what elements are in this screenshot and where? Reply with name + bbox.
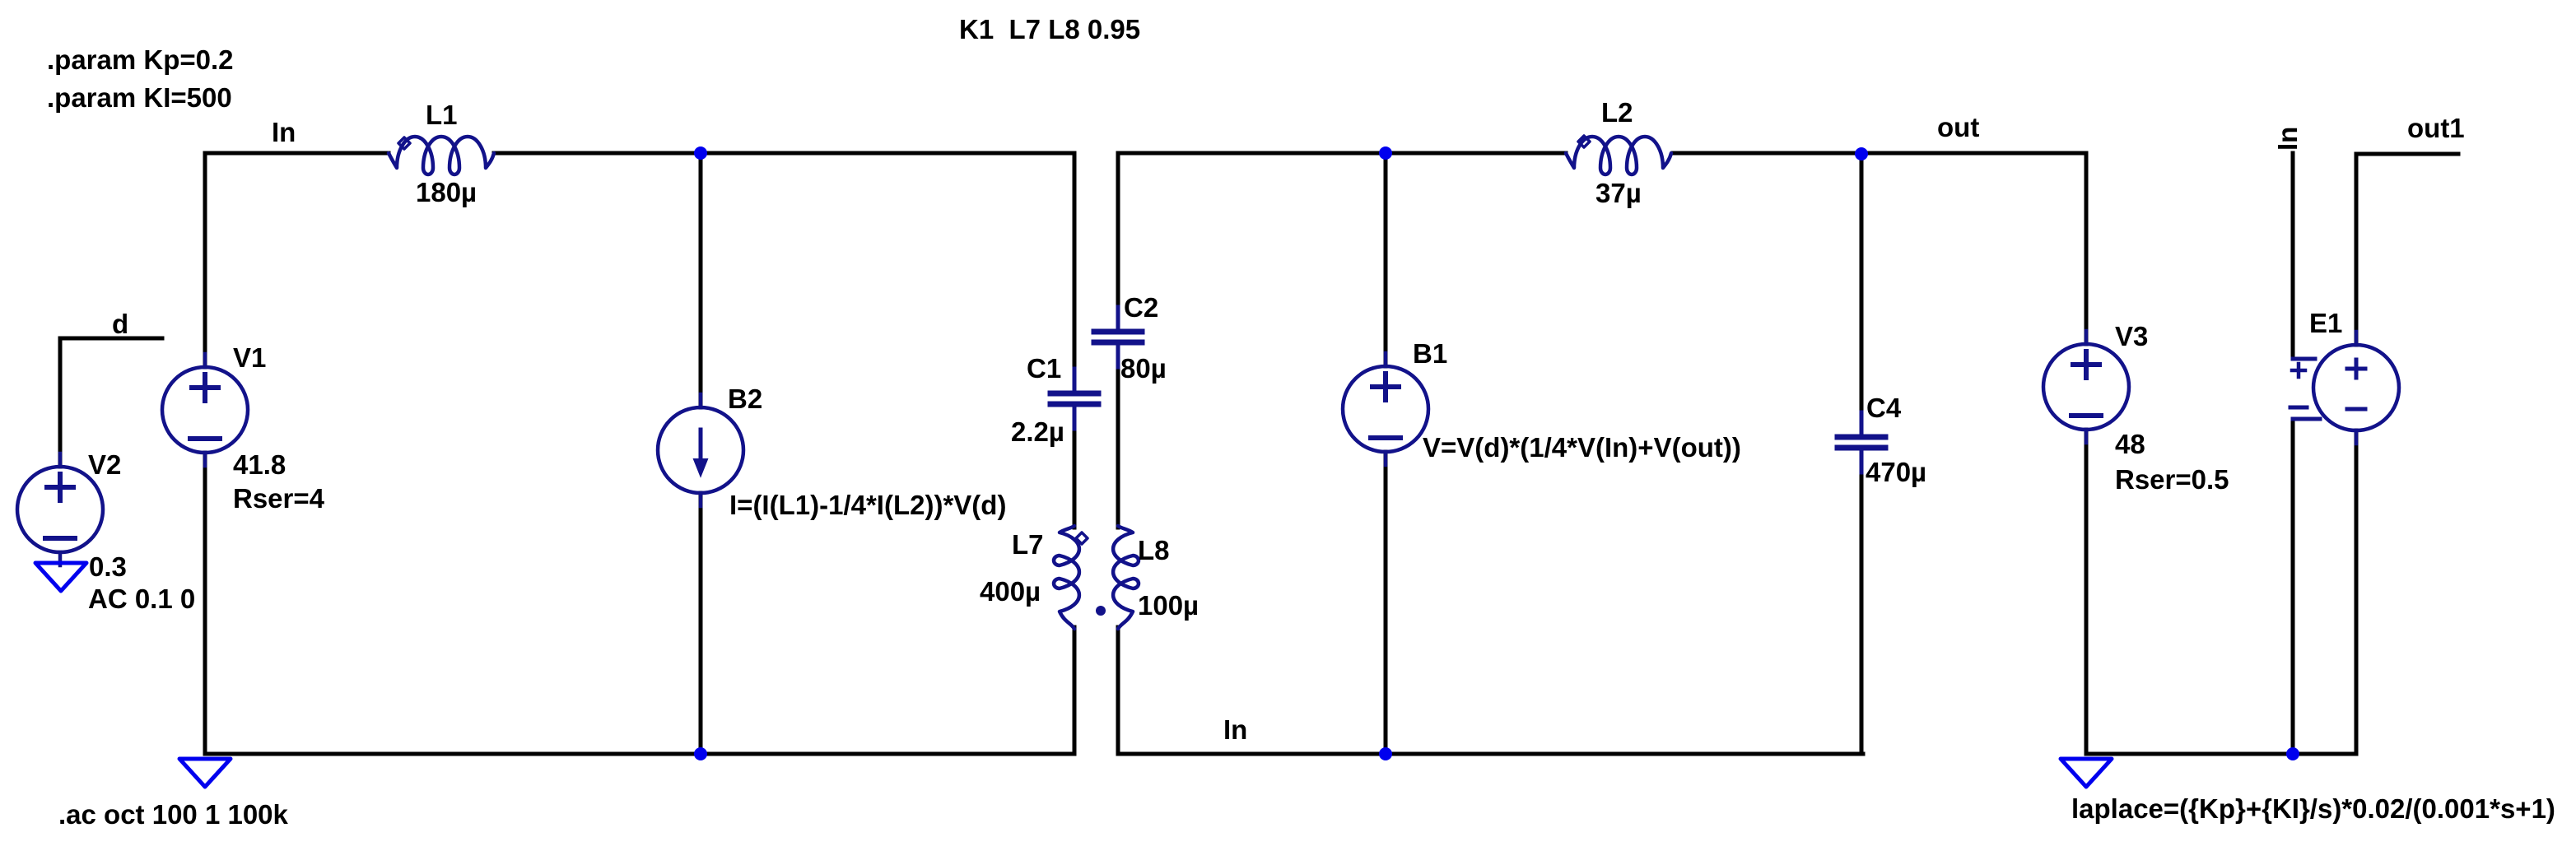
label V1 bbox=[233, 342, 266, 373]
label B1 bbox=[1413, 338, 1447, 369]
node label d bbox=[112, 309, 128, 339]
svg-text:.param KI=500: .param KI=500 bbox=[47, 82, 232, 113]
value AC 0.1 0 bbox=[88, 584, 195, 614]
svg-text:V=V(d)*(1/4*V(In)+V(out)): V=V(d)*(1/4*V(In)+V(out)) bbox=[1423, 432, 1741, 463]
coupled inductor L7 bbox=[1054, 526, 1079, 629]
svg-text:100µ: 100µ bbox=[1138, 590, 1199, 621]
svg-text:V2: V2 bbox=[88, 449, 121, 480]
svg-text:.param Kp=0.2: .param Kp=0.2 bbox=[47, 44, 234, 75]
svg-text:AC 0.1 0: AC 0.1 0 bbox=[88, 584, 195, 614]
wire V1 bottom vertical to ground bbox=[203, 453, 207, 754]
value 100µ bbox=[1138, 590, 1199, 621]
node label In rotated at E1 control bbox=[2272, 127, 2303, 151]
svg-text:C2: C2 bbox=[1124, 292, 1158, 323]
L8 phase dot bbox=[1096, 606, 1106, 616]
svg-text:L2: L2 bbox=[1601, 97, 1633, 128]
svg-text:d: d bbox=[112, 309, 128, 339]
svg-text:37µ: 37µ bbox=[1595, 178, 1642, 208]
directive K1 coupling bbox=[959, 14, 1140, 44]
label E1 bbox=[2309, 308, 2342, 338]
value 41.8 bbox=[233, 449, 286, 480]
svg-text:2.2µ: 2.2µ bbox=[1011, 416, 1064, 447]
svg-text:E1: E1 bbox=[2309, 308, 2342, 338]
behavioral voltage source B1 bbox=[1343, 353, 1428, 465]
svg-text:In: In bbox=[272, 117, 296, 147]
value 400µ bbox=[980, 576, 1041, 607]
ground at V2 bbox=[35, 563, 86, 591]
label C4 bbox=[1866, 393, 1902, 423]
label L1 bbox=[426, 100, 458, 130]
value Rser=4 bbox=[233, 483, 325, 514]
svg-text:Rser=0.5: Rser=0.5 bbox=[2115, 464, 2229, 495]
svg-text:180µ: 180µ bbox=[416, 177, 477, 207]
directive .param KI bbox=[47, 82, 232, 113]
directive .ac bbox=[58, 799, 289, 830]
wire bottom net In middle segment bbox=[1118, 752, 1863, 756]
wire E1 - control pin down to ground net bbox=[2291, 419, 2295, 754]
wire C2 to L8 vertical bbox=[1116, 365, 1120, 528]
svg-text:400µ: 400µ bbox=[980, 576, 1041, 607]
value 80µ bbox=[1120, 353, 1167, 384]
svg-text:out: out bbox=[1937, 112, 1979, 142]
wire C1 branch top vertical bbox=[1073, 153, 1077, 370]
node label out1 bbox=[2407, 113, 2465, 143]
wire B1 bottom vertical bbox=[1384, 452, 1388, 754]
junction B1 bottom bbox=[1379, 747, 1392, 760]
L2 phase dot diamond bbox=[1578, 136, 1590, 147]
node label out bbox=[1937, 112, 1979, 142]
value 180µ bbox=[416, 177, 477, 207]
directive .param Kp bbox=[47, 44, 234, 75]
svg-text:.ac oct 100 1 100k: .ac oct 100 1 100k bbox=[58, 799, 289, 830]
label L7 bbox=[1012, 529, 1044, 560]
svg-text:41.8: 41.8 bbox=[233, 449, 286, 480]
label B2 bbox=[728, 384, 762, 414]
junction B2 bottom bbox=[694, 747, 707, 760]
wire E1 output top vertical bbox=[2355, 154, 2359, 345]
voltage source V2 bbox=[17, 453, 103, 565]
svg-text:0.3: 0.3 bbox=[89, 551, 127, 582]
label L8 bbox=[1138, 535, 1170, 565]
wire node d vertical to V2 bbox=[58, 338, 63, 467]
wire C2 branch top vertical bbox=[1116, 153, 1120, 309]
value laplace of E1 bbox=[2071, 793, 2555, 824]
wire out1 from E1 top corner bbox=[2356, 152, 2458, 156]
wire bottom right segment V3 to E1 bbox=[2086, 752, 2356, 756]
svg-text:C4: C4 bbox=[1866, 393, 1902, 423]
inductor L1 bbox=[389, 137, 494, 174]
wire net In top-left from V1 to L1 bbox=[205, 151, 389, 156]
svg-text:48: 48 bbox=[2115, 429, 2145, 459]
svg-text:L8: L8 bbox=[1138, 535, 1170, 565]
wire bottom ground net left segment bbox=[205, 752, 1074, 756]
wire C1 to L7 vertical bbox=[1073, 427, 1077, 528]
wire B2 top vertical bbox=[699, 153, 703, 407]
label L2 bbox=[1601, 97, 1633, 128]
label C1 bbox=[1027, 353, 1061, 384]
svg-text:C1: C1 bbox=[1027, 353, 1061, 384]
wire L7 bottom vertical bbox=[1073, 627, 1077, 754]
wire top net segment from C2 branch to L2 bbox=[1118, 151, 1566, 156]
wire V3 top vertical bbox=[2085, 153, 2089, 344]
ground at V1 bbox=[179, 759, 231, 787]
wire In label to E1 + control pin bbox=[2291, 153, 2295, 359]
svg-text:In: In bbox=[2272, 127, 2303, 151]
svg-text:In: In bbox=[1223, 714, 1247, 745]
junction B2 top bbox=[694, 146, 707, 160]
wire V1 top vertical bbox=[203, 153, 207, 367]
svg-text:B1: B1 bbox=[1413, 338, 1447, 369]
capacitor C2 bbox=[1094, 307, 1142, 367]
wire C4 bottom vertical bbox=[1860, 471, 1864, 754]
VCVS E1 bbox=[2290, 332, 2399, 444]
capacitor C4 bbox=[1838, 412, 1885, 472]
value 2.2µ bbox=[1011, 416, 1064, 447]
svg-text:L7: L7 bbox=[1012, 529, 1044, 560]
value I=(I(L1)-1/4*I(L2))*V(d) bbox=[729, 490, 1006, 520]
svg-text:V3: V3 bbox=[2115, 321, 2148, 351]
label C2 bbox=[1124, 292, 1158, 323]
svg-text:Rser=4: Rser=4 bbox=[233, 483, 325, 514]
svg-text:V1: V1 bbox=[233, 342, 266, 373]
ground at V3 bbox=[2061, 759, 2112, 787]
value 0.3 bbox=[89, 551, 127, 582]
wire top net segment from L2 to V3 corner bbox=[1673, 151, 2086, 156]
svg-text:K1 L7 L8 0.95: K1 L7 L8 0.95 bbox=[959, 14, 1140, 44]
node label In bbox=[272, 117, 296, 147]
wire L8 bottom vertical bbox=[1116, 627, 1120, 754]
wire E1 output bottom vertical bbox=[2355, 430, 2359, 754]
value 48 bbox=[2115, 429, 2145, 459]
voltage source V3 bbox=[2043, 331, 2129, 443]
svg-text:I=(I(L1)-1/4*I(L2))*V(d): I=(I(L1)-1/4*I(L2))*V(d) bbox=[729, 490, 1006, 520]
svg-text:B2: B2 bbox=[728, 384, 762, 414]
label V2 bbox=[88, 449, 121, 480]
svg-text:out1: out1 bbox=[2407, 113, 2465, 143]
junction out node at C4 bbox=[1855, 147, 1868, 160]
svg-text:laplace=({Kp}+{KI}/s)*0.02/(0.: laplace=({Kp}+{KI}/s)*0.02/(0.001*s+1) bbox=[2071, 793, 2555, 824]
value 470µ bbox=[1866, 457, 1926, 487]
value V=V(d)*(1/4*V(In)+V(out)) bbox=[1423, 432, 1741, 463]
wire B2 bottom vertical bbox=[699, 493, 703, 754]
node label In bottom bbox=[1223, 714, 1247, 745]
svg-text:470µ: 470µ bbox=[1866, 457, 1926, 487]
value Rser=0.5 bbox=[2115, 464, 2229, 495]
capacitor C1 bbox=[1050, 369, 1098, 429]
wire V3 bottom vertical to ground bbox=[2085, 430, 2089, 754]
wire from L1 to C1 branch corner bbox=[494, 151, 1074, 156]
voltage source V1 bbox=[162, 354, 248, 466]
inductor L2 bbox=[1566, 137, 1671, 174]
svg-text:80µ: 80µ bbox=[1120, 353, 1167, 384]
coupled inductor L8 bbox=[1113, 526, 1139, 629]
wire node d horizontal bbox=[60, 337, 162, 341]
value 37µ bbox=[1595, 178, 1642, 208]
label V3 bbox=[2115, 321, 2148, 351]
wire C4 top vertical bbox=[1860, 153, 1864, 414]
L1 phase dot diamond bbox=[398, 137, 410, 149]
junction B1 top bbox=[1379, 146, 1392, 160]
wire B1 top vertical bbox=[1384, 153, 1388, 366]
L7 phase dot diamond bbox=[1076, 532, 1088, 544]
svg-text:L1: L1 bbox=[426, 100, 458, 130]
behavioral current source B2 bbox=[658, 394, 743, 506]
junction E1 control at ground net bbox=[2286, 747, 2299, 760]
